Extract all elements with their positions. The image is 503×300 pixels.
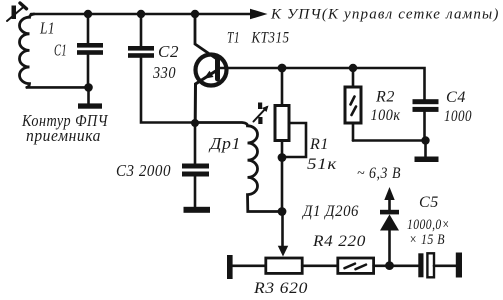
wire base bbox=[220, 68, 425, 100]
svg-text:Др1: Др1 bbox=[208, 134, 241, 153]
wire collector bbox=[195, 14, 218, 60]
svg-text:L1: L1 bbox=[39, 19, 55, 38]
capacitor C5 electrolytic bbox=[418, 253, 456, 277]
capacitor C4 bbox=[413, 99, 439, 140]
trimmer adjust symbol near R1 bbox=[254, 103, 269, 125]
resistor R1 bbox=[275, 68, 306, 158]
wire R4 to C5 bbox=[374, 264, 419, 267]
svg-text:С1: С1 bbox=[54, 41, 67, 60]
node top rail / C2 bbox=[137, 10, 145, 18]
ground under C4 bbox=[415, 141, 439, 163]
svg-text:R3 620: R3 620 bbox=[253, 280, 308, 297]
node top rail / C1 bbox=[84, 10, 92, 18]
arrow 6.3V feed bbox=[384, 187, 394, 200]
svg-text:К УПЧ(К управл сетке лампы): К УПЧ(К управл сетке лампы) bbox=[270, 7, 499, 23]
wire terminal to R3 bbox=[233, 264, 267, 267]
node diode / bottom rail bbox=[385, 261, 394, 270]
capacitor C3 bbox=[182, 123, 209, 207]
coil L1 bbox=[19, 14, 34, 87]
svg-text:R4 220: R4 220 bbox=[312, 233, 366, 250]
svg-text:КТ315: КТ315 bbox=[251, 30, 290, 47]
wire L1 bottom bbox=[27, 86, 89, 89]
svg-text:С5: С5 bbox=[419, 194, 439, 211]
svg-text:Д1 Д206: Д1 Д206 bbox=[301, 203, 359, 220]
svg-text:1000,0×: 1000,0× bbox=[407, 217, 450, 233]
ground under C1 bbox=[78, 87, 102, 108]
wire R1 to Dr1 node bbox=[281, 158, 284, 212]
capacitor C1 bbox=[77, 14, 103, 87]
svg-text:1000: 1000 bbox=[444, 108, 472, 125]
capacitor C2 bbox=[128, 14, 195, 123]
inductor Dr1 bbox=[195, 123, 282, 212]
resistor R4 bbox=[338, 258, 374, 273]
potentiometer R3 bbox=[266, 258, 302, 273]
svg-text:51к: 51к bbox=[307, 156, 337, 173]
wiper arrow onto R3 bbox=[278, 246, 288, 257]
svg-text:330: 330 bbox=[152, 63, 176, 82]
wire top rail bbox=[31, 13, 252, 16]
node emitter / C2 / C3 / Dr1 bbox=[191, 119, 199, 127]
diode D1 bbox=[380, 199, 399, 266]
svg-text:R2: R2 bbox=[375, 89, 395, 106]
transistor T1 bbox=[195, 55, 226, 124]
svg-text:R1: R1 bbox=[309, 136, 329, 153]
svg-text:С2: С2 bbox=[158, 42, 179, 61]
svg-text:С3 2000: С3 2000 bbox=[116, 161, 171, 180]
node C4 bottom bbox=[421, 136, 429, 144]
node base / R1 top bbox=[278, 64, 287, 73]
node top rail / collector bbox=[191, 10, 199, 18]
resistor R2 bbox=[345, 68, 361, 141]
svg-text:Т1: Т1 bbox=[227, 30, 240, 47]
svg-text:100к: 100к bbox=[371, 107, 401, 124]
arrow to UPCh output bbox=[250, 9, 268, 20]
node Dr1 bottom bbox=[278, 207, 287, 216]
svg-text:С4: С4 bbox=[446, 89, 466, 106]
node base / R2 top bbox=[349, 64, 357, 72]
ground under C3 bbox=[184, 207, 211, 213]
right terminal bbox=[456, 253, 462, 278]
left terminal bbox=[227, 255, 233, 279]
node L1/C1 bottom bbox=[84, 83, 93, 92]
wire to R3 wiper bbox=[281, 212, 284, 248]
node R1 bottom bbox=[278, 153, 287, 162]
svg-text:× 15 В: × 15 В bbox=[409, 232, 445, 248]
trimmer adjust symbol for L1 bbox=[7, 3, 27, 21]
wire R2 bottom to C4 bottom bbox=[353, 139, 426, 142]
wire R3 to R4 bbox=[302, 264, 338, 267]
svg-text:~ 6,3 В: ~ 6,3 В bbox=[357, 165, 401, 182]
svg-text:приемника: приемника bbox=[26, 126, 101, 145]
